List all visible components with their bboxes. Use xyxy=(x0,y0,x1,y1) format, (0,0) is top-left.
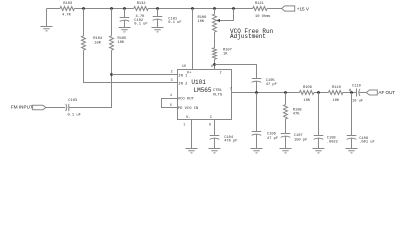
svg-text:U101: U101 xyxy=(191,79,206,86)
node R105 top xyxy=(110,7,113,10)
resistor R108 xyxy=(284,93,302,120)
capacitor C110 xyxy=(349,84,367,103)
svg-text:R110: R110 xyxy=(332,86,341,90)
svg-text:AF OUT: AF OUT xyxy=(378,90,395,95)
svg-text:+15 V: +15 V xyxy=(297,6,310,11)
svg-text:IN 2: IN 2 xyxy=(178,82,188,86)
svg-text:C103: C103 xyxy=(68,99,77,103)
ground (pin 1) xyxy=(186,149,198,153)
wire R104 to pin 3 xyxy=(84,50,178,82)
svg-text:10K: 10K xyxy=(118,41,125,45)
ground (C102) xyxy=(119,28,131,32)
node pot top xyxy=(213,7,216,10)
resistor R104 xyxy=(82,9,103,51)
svg-text:.001 uF: .001 uF xyxy=(359,141,375,145)
svg-text:C107: C107 xyxy=(294,134,303,138)
ground (C107) xyxy=(280,149,292,153)
svg-text:0.1 uF: 0.1 uF xyxy=(168,21,181,25)
resistor R110 xyxy=(329,86,343,103)
wire to +15V tag xyxy=(267,8,282,10)
svg-text:10K: 10K xyxy=(333,99,340,103)
resistor R107 xyxy=(213,32,232,59)
svg-text:T: T xyxy=(220,72,223,76)
svg-text:10: 10 xyxy=(182,65,186,69)
svg-text:47 pF: 47 pF xyxy=(266,83,277,87)
svg-text:9: 9 xyxy=(209,124,211,128)
wire between R109 R110 xyxy=(314,92,329,94)
capacitor C106 xyxy=(252,93,278,149)
node C105/C106 xyxy=(255,91,258,94)
svg-text:C110: C110 xyxy=(352,84,361,88)
ground (C108) xyxy=(313,149,325,153)
node R104 top xyxy=(82,7,85,10)
capacitor C103 xyxy=(66,99,81,117)
node wiper branch xyxy=(232,7,235,10)
node C101 top xyxy=(156,7,159,10)
svg-text:10 uF: 10 uF xyxy=(352,99,363,103)
svg-text:8: 8 xyxy=(211,65,213,69)
svg-text:4.7K: 4.7K xyxy=(62,14,72,18)
svg-text:3: 3 xyxy=(171,79,173,83)
svg-text:470 pF: 470 pF xyxy=(224,140,237,144)
resistor R109 xyxy=(300,86,314,103)
svg-text:.0022: .0022 xyxy=(327,141,338,145)
svg-text:V+: V+ xyxy=(187,71,192,75)
svg-text:VCO OUT: VCO OUT xyxy=(178,97,195,101)
svg-text:150 pF: 150 pF xyxy=(294,138,307,142)
svg-text:4: 4 xyxy=(170,94,172,98)
wire pin 7 row xyxy=(232,92,300,94)
capacitor C105 xyxy=(252,79,277,93)
svg-text:LM565: LM565 xyxy=(194,87,212,94)
svg-text:1: 1 xyxy=(183,124,185,128)
ground (C109) xyxy=(346,149,358,153)
input tag FM INPUT xyxy=(11,105,46,110)
ground (C106) xyxy=(251,149,263,153)
svg-text:0.1 uF: 0.1 uF xyxy=(68,114,81,118)
resistor R121 xyxy=(253,2,271,19)
capacitor C107 xyxy=(281,119,308,149)
node C108 xyxy=(317,91,320,94)
node input junction xyxy=(110,73,113,76)
wire R110 to C110 xyxy=(343,92,357,94)
potentiometer R106 xyxy=(198,9,234,33)
ground (top left, supply rail return) xyxy=(41,9,53,31)
node V+ branch xyxy=(191,7,194,10)
svg-text:CTRL: CTRL xyxy=(213,89,223,93)
wire rail segment xyxy=(74,8,133,10)
wire pin8 to C105 xyxy=(215,65,257,79)
resistor R103 xyxy=(60,2,74,18)
resistor R132 xyxy=(134,2,148,19)
svg-text:R109: R109 xyxy=(303,86,312,90)
node R108 xyxy=(284,91,287,94)
svg-text:47K: 47K xyxy=(293,113,300,117)
wire input xyxy=(46,107,65,109)
svg-text:FM INPUT: FM INPUT xyxy=(11,105,33,110)
node C102 top xyxy=(123,7,126,10)
svg-text:PD VCO IN: PD VCO IN xyxy=(178,107,199,111)
node pin 8 junction xyxy=(213,63,216,66)
svg-text:0.1 uF: 0.1 uF xyxy=(134,22,147,26)
capacitor C101 xyxy=(153,9,182,28)
svg-text:C106: C106 xyxy=(267,132,276,136)
svg-text:10K: 10K xyxy=(198,20,205,24)
wire rail left xyxy=(47,8,61,10)
output tag AF OUT xyxy=(366,90,395,95)
ground (C104) xyxy=(209,149,221,153)
wire R107 to pin 8 xyxy=(214,59,216,69)
power tag +15 V xyxy=(282,6,310,11)
wire pin 1 to ground xyxy=(191,120,193,149)
capacitor C109 xyxy=(347,93,375,149)
op IC U101 LM565 box xyxy=(178,70,232,121)
svg-text:IN 1: IN 1 xyxy=(178,74,188,78)
svg-text:2: 2 xyxy=(171,70,173,74)
wire to pin 2 xyxy=(112,74,178,76)
capacitor C108 xyxy=(314,93,338,149)
wire rail segment xyxy=(148,8,253,10)
svg-text:Adjustment: Adjustment xyxy=(230,33,266,40)
svg-text:VLTS: VLTS xyxy=(213,94,223,98)
svg-text:R121: R121 xyxy=(255,2,265,6)
svg-text:47 pF: 47 pF xyxy=(267,137,278,141)
svg-text:1K: 1K xyxy=(223,53,228,57)
svg-text:R132: R132 xyxy=(137,2,146,6)
svg-text:10K: 10K xyxy=(94,41,101,45)
annotation VCO text xyxy=(230,28,274,40)
wire V+ pin 10 xyxy=(192,9,194,70)
capacitor C102 xyxy=(120,9,148,28)
resistor R105 xyxy=(110,9,127,51)
capacitor C104 xyxy=(210,120,238,149)
svg-text:10K: 10K xyxy=(304,99,311,103)
svg-text:7: 7 xyxy=(230,87,232,91)
ground (C101) xyxy=(152,28,164,32)
svg-text:10 Ohms: 10 Ohms xyxy=(255,14,271,19)
wire pin4-pin5 loop xyxy=(162,99,178,108)
svg-text:V-: V- xyxy=(186,116,191,120)
node C109 xyxy=(350,91,353,94)
wire R105 down to input junction xyxy=(69,50,112,107)
svg-text:R103: R103 xyxy=(63,2,72,6)
